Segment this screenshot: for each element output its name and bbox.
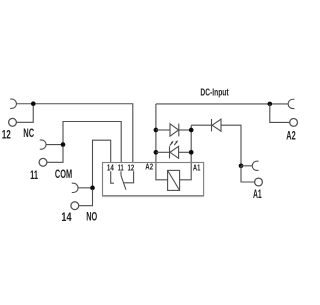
wire terminal 11 to COM junction (47, 146, 63, 162)
relay contact movable blade (121, 176, 126, 190)
wire NC from plug to pin 12 of relay box (17, 104, 133, 163)
relay coil diagonal (168, 170, 180, 190)
wire COM junction to pin 11 of relay box (63, 122, 121, 163)
node NC junction (31, 101, 36, 106)
terminal 14 plug arc (72, 183, 78, 192)
wire LED branch left (156, 151, 170, 153)
wire right rail to series diode (191, 124, 211, 126)
svg-text:14: 14 (107, 164, 114, 173)
svg-text:A2: A2 (145, 163, 153, 172)
wire series diode to A1 junction (221, 125, 241, 166)
relay contact pin 14 lead (111, 171, 114, 183)
node right rail lower (189, 150, 194, 155)
LED triangle (170, 146, 179, 158)
wire DC-Input top rail (156, 103, 289, 105)
relay contact pin 12 lead (124, 171, 134, 183)
node A2 junction (267, 102, 272, 107)
wire top diode branch left (156, 129, 170, 131)
LED cathode bar (169, 146, 171, 158)
LED light arrow 2 (174, 142, 176, 145)
svg-text:COM: COM (55, 167, 72, 181)
svg-text:NO: NO (86, 210, 97, 224)
relay K1 box bottom shade (102, 196, 204, 198)
relay contact pin 11 lead (120, 171, 122, 175)
LED light arrow 1 (170, 143, 172, 146)
svg-text:NC: NC (23, 126, 34, 140)
wire COM plug to junction (46, 144, 63, 146)
terminal 12 screw circle (9, 118, 17, 126)
terminal A1 screw circle (255, 178, 263, 186)
node NO junction (90, 186, 95, 191)
svg-text:12: 12 (2, 128, 11, 142)
svg-text:14: 14 (61, 210, 71, 224)
terminal 14 screw circle (71, 202, 79, 210)
node A1 junction (239, 163, 244, 168)
svg-text:12: 12 (128, 164, 135, 173)
diode V2 series cathode bar (211, 119, 213, 131)
wire NO junction to pin 14 of relay box (93, 140, 111, 188)
wire LED branch right (179, 151, 192, 153)
wire A2 junction to terminal A2 (270, 104, 290, 123)
wire top diode branch right (179, 129, 191, 131)
svg-text:A2: A2 (286, 129, 296, 143)
node right rail upper (189, 128, 194, 133)
wire right rail / pin A1 of relay (180, 125, 192, 180)
wire A1 junction to plug (241, 165, 252, 167)
wire terminal 14 to NO junction (79, 189, 93, 205)
diode V2 series triangle (212, 119, 221, 131)
node COM junction (61, 142, 66, 147)
svg-text:DC-Input: DC-Input (200, 88, 229, 99)
wire A1 junction to terminal A1 (241, 166, 255, 182)
diode V1 cathode bar (178, 124, 180, 137)
terminal A1 plug arc (252, 161, 258, 170)
diode V1 freewheel triangle (170, 124, 179, 136)
svg-text:A1: A1 (193, 163, 201, 172)
terminal A2 plug arc (288, 99, 294, 108)
node left rail upper (154, 128, 159, 133)
terminal 11 screw circle (39, 158, 47, 166)
terminal 12 plug arc (10, 99, 16, 108)
terminal 11 plug arc (40, 140, 46, 149)
svg-text:11: 11 (30, 168, 38, 182)
wire NO plug to junction (78, 187, 92, 189)
wire left rail / pin A2 of relay (156, 104, 168, 180)
node left rail lower (154, 150, 159, 155)
relay K1 box outline (103, 163, 204, 196)
terminal A2 screw circle (290, 119, 298, 127)
relay coil rectangle (168, 170, 180, 190)
wire terminal 12 to NC junction (16, 106, 33, 123)
svg-text:A1: A1 (253, 187, 262, 201)
svg-text:11: 11 (118, 164, 124, 173)
